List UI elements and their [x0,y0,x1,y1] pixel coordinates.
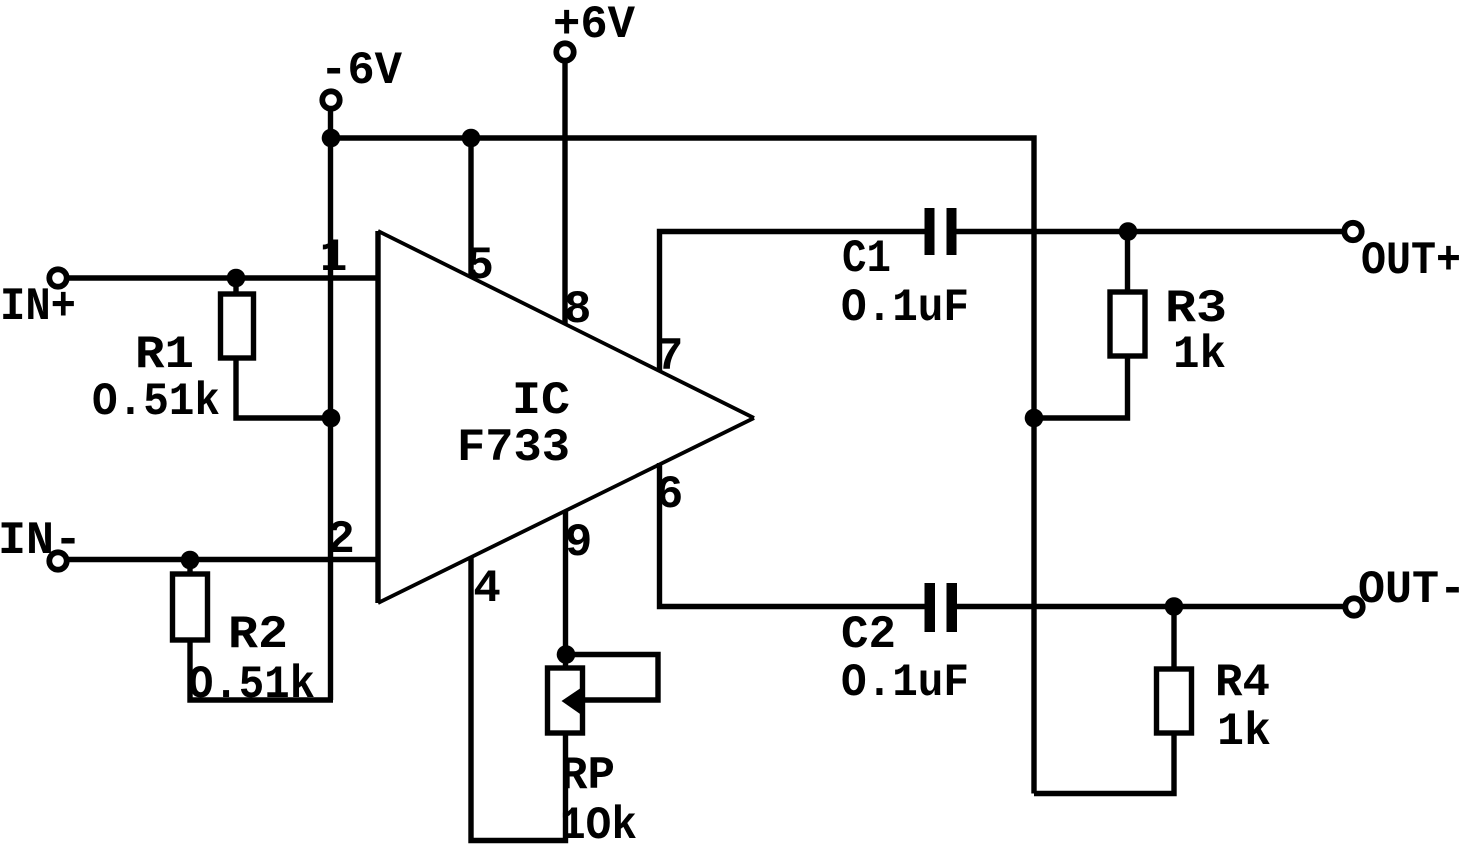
wire pin 5 [468,138,473,278]
junction OUT+ / R3 [1119,222,1138,241]
svg-text:1k: 1k [1217,706,1271,758]
svg-text:OUT-: OUT- [1358,564,1460,616]
wire -6V rail and right vertical bus [331,138,1035,794]
svg-text:1: 1 [320,232,348,284]
svg-text:R2: R2 [228,609,288,661]
junction R1 loop to -6V line [322,409,341,428]
svg-text:5: 5 [466,240,494,292]
svg-text:2: 2 [327,514,355,566]
power terminal +6V [556,43,573,60]
svg-text:R1: R1 [135,329,194,381]
input terminal IN- [49,552,66,569]
capacitor C1 [925,208,957,255]
resistor R1 [236,278,333,418]
wire pin 7 to OUT+ [660,232,1345,372]
svg-text:F733: F733 [457,422,570,474]
wire +6V to pin 8 [562,58,567,324]
junction IN- / R2 [181,551,200,570]
svg-text:R3: R3 [1165,283,1227,335]
svg-text:IN+: IN+ [0,281,76,333]
svg-text:+6V: +6V [553,0,635,51]
svg-text:C2: C2 [841,609,896,661]
wire pin 6 to OUT- [660,463,1346,607]
junction R3 loop to bus [1025,409,1044,428]
wire pin 4 down across and up to RP bottom [471,557,566,841]
output terminal OUT- [1345,598,1362,615]
svg-text:4: 4 [473,563,501,615]
resistor R2 [190,560,333,701]
wire IN+ to pin 1 [67,275,379,280]
svg-text:1k: 1k [1173,329,1226,381]
wire pin 9 to RP [563,510,568,668]
svg-text:8: 8 [564,284,592,336]
svg-text:O.1uF: O.1uF [841,657,969,709]
svg-text:-6V: -6V [320,45,402,97]
svg-text:IC: IC [512,375,570,427]
power terminal -6V [322,91,339,108]
junction rail to pin 5 [462,129,481,148]
junction RP wiper [557,645,576,664]
svg-text:1Ok: 1Ok [560,800,637,845]
svg-text:R4: R4 [1215,657,1270,709]
junction IN+ / R1 [227,269,246,288]
output terminal OUT+ [1344,223,1361,240]
input terminal IN+ [49,269,66,286]
junction OUT- / R4 [1165,597,1184,616]
resistor R4 [1034,607,1174,794]
potentiometer RP [548,655,659,734]
resistor R3 [1034,232,1128,419]
svg-text:O.1uF: O.1uF [841,282,969,334]
svg-text:O.51k: O.51k [92,376,220,428]
svg-text:OUT+: OUT+ [1361,235,1460,287]
capacitor C2 [925,583,958,632]
svg-text:C1: C1 [842,233,891,285]
op-amp U1 IC F733 triangle [378,231,754,603]
wire -6V vertical line [328,106,333,700]
svg-text:RP: RP [560,750,615,802]
svg-text:9: 9 [565,517,593,569]
wire IN- to pin 2 [67,557,379,562]
junction rail at -6V line [322,129,341,148]
svg-text:O.51k: O.51k [188,659,315,711]
